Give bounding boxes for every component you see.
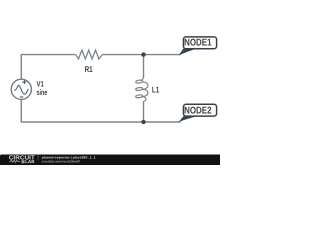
wire right branch bottom lead bbox=[143, 101, 145, 122]
svg-text:LAB: LAB bbox=[25, 159, 34, 164]
V1 sine wave bbox=[14, 85, 28, 94]
svg-text:NODE2: NODE2 bbox=[184, 105, 212, 116]
wire top-right: resistor right lead to NODE1 tail, through junction bbox=[102, 54, 180, 56]
node flag NODE1 tail bbox=[179, 49, 198, 56]
watermark seam between logo and info bbox=[38, 155, 39, 160]
node flag NODE2 tail bbox=[179, 116, 198, 122]
voltage source V1 circle bbox=[11, 79, 31, 99]
junction dot bottom bbox=[141, 120, 145, 124]
svg-text:circuitlab.com/circuit/c9dek67: circuitlab.com/circuit/c9dek67 bbox=[42, 159, 81, 163]
wire bottom: source bottom to corner, along bottom to NODE2 tail bbox=[21, 99, 180, 122]
svg-text:R1: R1 bbox=[85, 64, 93, 74]
wire top-left: corner from resistor left lead to source top bbox=[21, 55, 75, 80]
watermark bar bbox=[0, 155, 221, 166]
watermark logo square bbox=[21, 160, 24, 163]
node flag NODE2 box bbox=[183, 104, 216, 116]
junction dot top bbox=[141, 52, 145, 56]
V1 minus sign bbox=[20, 96, 24, 97]
node flag NODE1 box bbox=[183, 37, 216, 49]
resistor R1 zigzag bbox=[76, 50, 103, 59]
inductor L1 coil bbox=[136, 77, 148, 101]
watermark logo zigzag bbox=[9, 160, 20, 162]
svg-text:NODE1: NODE1 bbox=[184, 38, 212, 49]
V1 plus sign bbox=[22, 82, 26, 83]
svg-text:sine: sine bbox=[37, 88, 48, 97]
wire right branch top lead bbox=[143, 55, 145, 79]
svg-text:L1: L1 bbox=[152, 85, 160, 95]
